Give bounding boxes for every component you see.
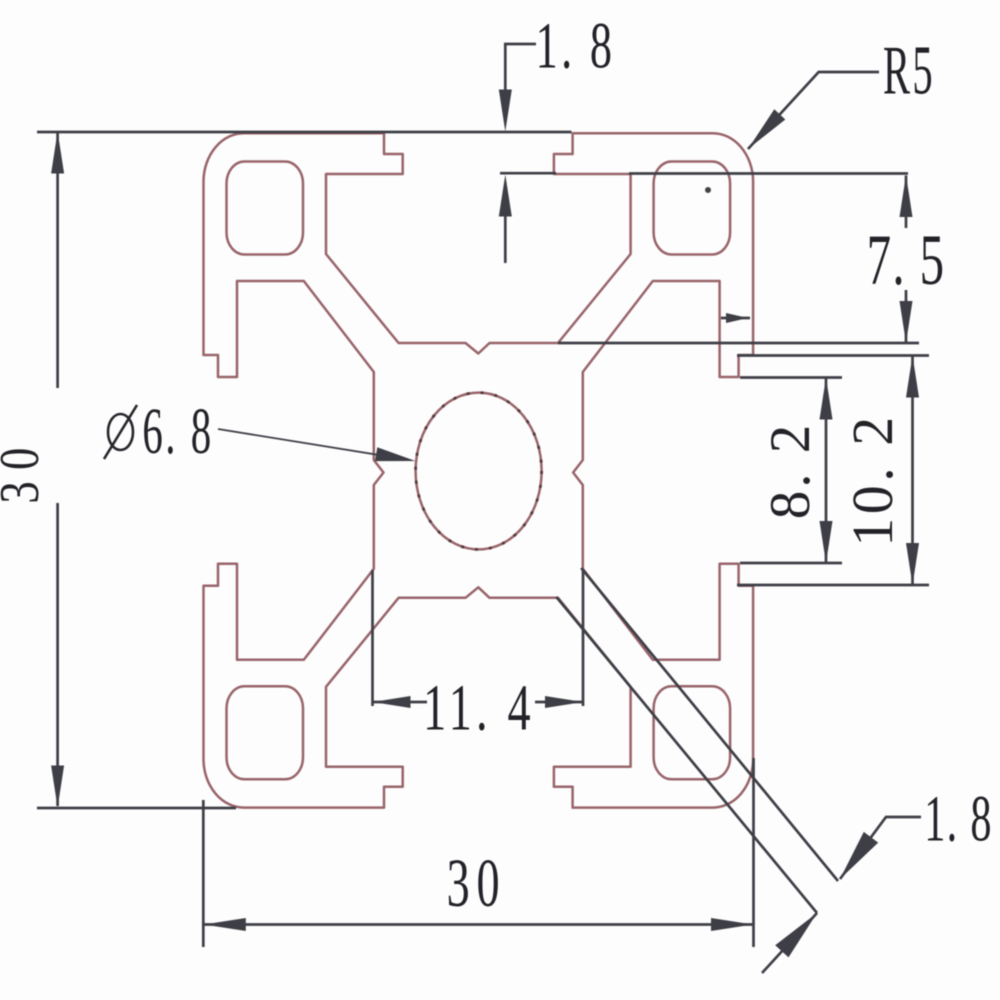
dimension line 8.2 x=826	[825, 378, 828, 564]
arrow 11.4 left	[373, 696, 411, 708]
small wall arrow tail right slot	[721, 317, 750, 320]
arrow 1.8 top down	[499, 90, 512, 132]
extension line bottom-left (30 left)	[37, 807, 236, 810]
extension line bottom dim left x=204	[202, 800, 205, 947]
extension line 11.4 left x=372.5	[371, 570, 374, 706]
svg-text:30: 30	[0, 436, 50, 503]
arrow R5	[748, 109, 785, 149]
svg-text:1. 8: 1. 8	[536, 10, 616, 83]
extension line bottom dim right x=753.5	[752, 758, 755, 947]
dimension line 30 left x=57.6	[56, 132, 59, 806]
svg-text:6. 8: 6. 8	[142, 394, 213, 467]
arrow 30 bottom right	[711, 918, 753, 931]
extension line lip underside level y=174 (1.8 / 7.5)	[500, 172, 908, 175]
arrow Ø6.8 leader	[375, 447, 416, 461]
arrow 30 bottom left	[204, 918, 246, 931]
arrow 1.8 top up	[499, 175, 512, 217]
arrow 7.5 top	[900, 175, 913, 217]
dot speck in TR hole	[705, 187, 711, 193]
dimension line 10.2 x=912.5	[911, 356, 914, 586]
leader 1.8 top	[505, 44, 536, 263]
white backing for 7.5 text	[863, 228, 949, 290]
leader tail second arrow bottom right	[762, 913, 817, 973]
extension line right lip y=561 (8.2)	[740, 562, 842, 565]
svg-text:7. 5: 7. 5	[867, 221, 946, 301]
arrow 30 left top	[51, 132, 64, 174]
label diameter symbol	[104, 405, 137, 459]
leader 1.8 bottom right	[840, 817, 921, 879]
arrow 8.2 top	[820, 378, 833, 420]
extension line web edge diagonal 2 (1.8 web)	[556, 597, 817, 913]
extension line 11.4 right x=583	[582, 570, 585, 706]
arrow 11.4 right	[545, 696, 583, 708]
extension line block top level y=343 (7.5)	[558, 342, 919, 345]
arrow 10.2 top	[906, 356, 919, 398]
svg-text:11. 4: 11. 4	[423, 672, 535, 745]
corner hole bottom-left	[227, 686, 304, 779]
dimension line 7.5 x=906	[905, 176, 908, 344]
small wall arrow right slot	[726, 313, 748, 323]
extension line right lip y=377.5 (8.2)	[740, 376, 842, 379]
arrow 1.8 bottom right leader	[840, 832, 878, 879]
corner hole bottom-right	[654, 686, 731, 779]
corner hole top-left	[227, 162, 304, 255]
arrow 7.5 bottom	[900, 301, 913, 343]
arrow web 1.8 second	[775, 913, 817, 957]
extension line right step y=583 (10.2)	[737, 584, 929, 587]
center hole ellipse Ø6.8	[416, 393, 542, 550]
leader R5	[748, 72, 879, 149]
svg-text:10. 2: 10. 2	[840, 413, 905, 547]
arrow 30 left bottom	[51, 766, 64, 808]
profile outline 30x30 extrusion	[204, 133, 754, 807]
extension line right step y=355.5 (10.2)	[737, 354, 929, 357]
leader Ø6.8	[218, 429, 410, 460]
dimension line 30 bottom y=923.5	[203, 923, 753, 926]
svg-text:30: 30	[447, 845, 507, 921]
extension line top (30 left / 1.8)	[37, 131, 572, 134]
corner hole top-right	[654, 162, 731, 255]
arrow 8.2 bottom	[820, 521, 833, 563]
arrow 10.2 bottom	[906, 543, 919, 585]
svg-text:R5: R5	[883, 32, 935, 109]
svg-text:8. 2: 8. 2	[759, 422, 822, 520]
extension line web edge diagonal 1 (1.8 web)	[581, 568, 838, 881]
dimension line 11.4 y=702	[373, 701, 584, 704]
svg-text:1. 8: 1. 8	[924, 782, 992, 855]
